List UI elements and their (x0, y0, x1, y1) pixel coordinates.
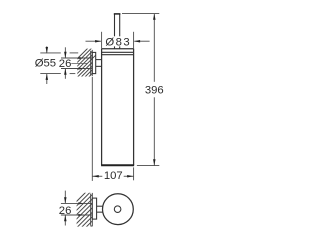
dimension Ø83 (86, 32, 150, 49)
wall hatching (bottom view) (68, 181, 97, 246)
rod inner circle (bottom view) (114, 206, 121, 213)
rod top cap (114, 13, 121, 15)
body right side (133, 49, 135, 166)
wall rosette (bottom view) (92, 198, 96, 219)
svg-text:26: 26 (59, 205, 72, 217)
svg-text:26: 26 (59, 58, 72, 70)
body bottom (101, 164, 134, 166)
lid top (102, 48, 134, 50)
mount arm (bottom view) (97, 205, 103, 207)
svg-text:396: 396 (145, 85, 164, 97)
svg-text:107: 107 (104, 170, 123, 182)
wall rosette (side view) (92, 52, 95, 73)
wall hatching (side view) (70, 40, 96, 103)
dimension 26 (bottom view) (61, 191, 92, 226)
wall face line (side view) (91, 50, 93, 76)
centre line (side view mount axis) (71, 62, 87, 64)
body left side (101, 49, 103, 166)
dimension 107 (92, 77, 133, 181)
holder outer circle (bottom view) (103, 194, 134, 225)
dimension Ø55 (40, 46, 78, 84)
dimension 396 (122, 14, 159, 166)
lid bottom seam (102, 51, 134, 53)
mount arm (side view) (96, 59, 102, 61)
dimension 26 (side view) (61, 47, 92, 79)
stray hatch stroke across rosette (92, 55, 95, 58)
svg-text:Ø55: Ø55 (35, 58, 56, 70)
wall inner line (bottom view) (90, 194, 92, 226)
brush rod (114, 14, 116, 49)
wall face line (bottom view) (91, 193, 93, 227)
wall inner line (side view) (90, 51, 92, 76)
svg-text:Ø83: Ø83 (105, 37, 131, 49)
body top rim seam (102, 54, 134, 56)
